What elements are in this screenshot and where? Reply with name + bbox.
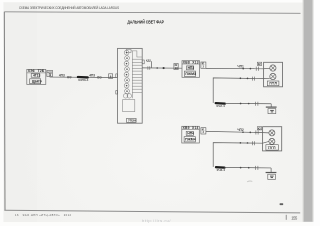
svg-text:ПЖМ3: ПЖМ3 (185, 72, 196, 76)
svg-text:СХЕМА ЭЛЕКТРИЧЕСКИХ СОЕДИНЕНИЙ: СХЕМА ЭЛЕКТРИЧЕСКИХ СОЕДИНЕНИЙ АВТОМОБИЛ… (19, 6, 119, 10)
svg-text:77ГЛ: 77ГЛ (269, 82, 277, 86)
svg-text:1Н: 1Н (175, 68, 178, 70)
svg-text:ЧП2: ЧП2 (237, 128, 244, 132)
svg-text:ДАЛЬНИЙ СВЕТ ФАР: ДАЛЬНИЙ СВЕТ ФАР (127, 20, 164, 25)
svg-text:ХВ9 Х14: ХВ9 Х14 (183, 126, 199, 130)
svg-text:ПЖМ4: ПЖМ4 (185, 138, 196, 142)
svg-text:КД1: КД1 (146, 59, 152, 63)
svg-text:4Г13: 4Г13 (33, 74, 40, 78)
svg-text:77ГП: 77ГП (268, 146, 277, 150)
svg-text:155: 155 (291, 215, 298, 220)
svg-text:НП3: НП3 (188, 66, 195, 70)
svg-text:04П3-4: 04П3-4 (78, 78, 88, 82)
svg-text:16 ЭАО·НПП «ИТЦ-АВТО» 2012: 16 ЭАО·НПП «ИТЦ-АВТО» 2012 (15, 213, 72, 217)
svg-text:НП4: НП4 (187, 132, 194, 136)
svg-text:ХВ8 Х13: ХВ8 Х13 (183, 60, 199, 64)
svg-text:http://lrs.ru/: http://lrs.ru/ (142, 218, 171, 223)
svg-text:0Ч3-4: 0Ч3-4 (217, 168, 226, 172)
svg-text:7П2Н: 7П2Н (128, 119, 137, 123)
svg-text:ЧП1: ЧП1 (237, 64, 244, 68)
svg-text:4П3: 4П3 (59, 73, 65, 77)
svg-text:0Ч2-4: 0Ч2-4 (216, 104, 225, 108)
svg-text:ЦБКЭ: ЦБКЭ (32, 80, 42, 84)
svg-text:4П3: 4П3 (89, 73, 95, 77)
